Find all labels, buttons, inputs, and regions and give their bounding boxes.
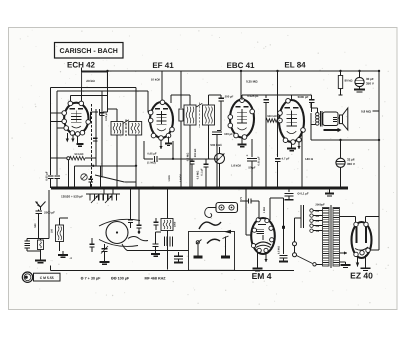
squiggle wire b	[207, 239, 220, 243]
wire EL84 cathode arrow	[298, 141, 300, 149]
svg-text:EBC 41: EBC 41	[226, 61, 255, 70]
node on HT bus	[358, 70, 360, 72]
capacitor 0.05 µF left a	[48, 175, 54, 177]
svg-text:Θ 0,1 µF: Θ 0,1 µF	[297, 192, 309, 196]
IF can core dashed	[125, 120, 127, 138]
dial circle	[106, 222, 128, 244]
wire antenna tank loop	[27, 238, 49, 240]
svg-text:50 kΩ/i: 50 kΩ/i	[75, 153, 84, 156]
svg-text:0.05 µF: 0.05 µF	[46, 171, 49, 181]
wire EBC41 grid drop	[240, 71, 242, 100]
svg-text:1000: 1000	[174, 221, 177, 227]
node on main bus	[116, 187, 119, 190]
resistor 50 kΩ below ECH42	[67, 157, 70, 160]
tube EBC41	[230, 100, 254, 138]
ground below bus right	[329, 188, 331, 193]
speaker	[340, 115, 343, 124]
oscillator box	[74, 166, 76, 188]
ground antenna coil	[40, 251, 42, 260]
electrolytic 100 µF	[212, 131, 222, 133]
node on main bus	[216, 187, 219, 190]
capacitor 200 µF	[220, 95, 222, 98]
svg-text:80 kΩ: 80 kΩ	[345, 79, 354, 83]
wire AVC dashed divider	[91, 104, 93, 188]
svg-text:1 MΩ/i: 1 MΩ/i	[180, 174, 183, 182]
IF transformer T2 primary	[184, 105, 196, 125]
node on main bus	[301, 187, 304, 190]
wire heater tap arrow	[340, 252, 348, 254]
tube EL84	[279, 100, 304, 142]
resistor 20 kΩ box	[82, 72, 108, 88]
electrolytic pair bottom	[174, 255, 183, 257]
resistor 500 kΩ grid EL84	[266, 119, 280, 123]
tuning gang	[86, 193, 120, 195]
wire osc box	[167, 188, 169, 219]
wire T2 secondary top	[208, 95, 210, 105]
antenna tank coil	[38, 240, 44, 250]
svg-text:200 µF: 200 µF	[225, 95, 234, 99]
volume potentiometer 500 kΩ	[215, 154, 225, 164]
trimmer caps pair a	[128, 219, 133, 221]
svg-text:5000 pF: 5000 pF	[298, 95, 309, 99]
EM4 inner details	[258, 224, 266, 226]
capacitor C em4	[240, 200, 248, 202]
svg-text:CARISCH - BACH: CARISCH - BACH	[60, 48, 118, 55]
svg-text:4.7 µF: 4.7 µF	[282, 157, 290, 161]
wire bus drop x107	[107, 71, 109, 112]
node on main bus	[56, 187, 59, 190]
wire EL84 grid	[279, 120, 282, 122]
antenna tank caps	[24, 240, 30, 242]
svg-text:0.01 µF: 0.01 µF	[258, 156, 261, 165]
node on HT bus	[240, 70, 242, 72]
wire 0.025 node down	[265, 121, 267, 189]
svg-text:140 Ω: 140 Ω	[305, 157, 314, 161]
svg-text:350 V: 350 V	[366, 82, 374, 86]
capacitor 0.05 µF right of ECH42	[99, 109, 101, 115]
svg-text:500 kΩ/i: 500 kΩ/i	[267, 115, 278, 118]
svg-text:32 µF: 32 µF	[347, 158, 355, 162]
svg-text:0,05 µF: 0,05 µF	[147, 153, 157, 156]
wire EM4 arrow leg	[265, 253, 267, 263]
IF transformer T1 primary	[111, 122, 123, 136]
speaker frame bar	[324, 129, 338, 131]
wire top HT bus	[82, 70, 380, 72]
node on main bus	[87, 187, 90, 190]
wire ECH42 anode to bus	[81, 68, 83, 73]
wire AVC line upper	[51, 87, 137, 89]
wire EF41 screen drop	[180, 71, 182, 108]
wire ECH42 right pin	[91, 111, 99, 113]
wire left column a	[50, 88, 52, 175]
capacitor 4.7 µF	[277, 71, 279, 157]
node on HT bus	[339, 70, 341, 72]
svg-text:100: 100	[51, 228, 54, 233]
wire EL84 plate	[291, 95, 293, 100]
wire T2 primary top	[189, 95, 191, 105]
svg-text:13/520 + 520 pF: 13/520 + 520 pF	[61, 195, 83, 199]
capacitor 0.05 µF left b	[54, 175, 60, 177]
wire gang drops	[103, 188, 105, 194]
node on main bus	[130, 187, 133, 190]
node on main bus	[265, 187, 268, 190]
svg-text:+: +	[246, 154, 248, 158]
mains switch	[297, 256, 313, 264]
title box CARISCH - BACH	[55, 43, 124, 59]
ECH42 heater arrows	[66, 133, 68, 139]
wire HV to EZ40 plate	[340, 216, 356, 218]
osc coil mid	[56, 225, 64, 242]
wire trafo bottom gnd	[340, 261, 346, 263]
resistor 140 ohm	[301, 131, 303, 188]
wire main bus	[51, 187, 348, 190]
capacitor 0.05 µF coupling	[143, 141, 145, 159]
svg-text:350 V: 350 V	[347, 162, 355, 166]
cap x90	[90, 243, 95, 245]
node on HT bus	[276, 70, 278, 72]
svg-text:EL 84: EL 84	[284, 61, 306, 70]
svg-text:ΘΘ 100 µF: ΘΘ 100 µF	[111, 276, 130, 280]
svg-text:Θ 7 + 30 µF: Θ 7 + 30 µF	[81, 276, 101, 280]
antenna	[40, 207, 42, 210]
small caps mid	[190, 160, 195, 162]
node on HT bus	[378, 70, 380, 72]
power transformer left winding	[323, 208, 330, 267]
node on main bus	[201, 187, 204, 190]
squiggle wire a	[199, 222, 221, 229]
node on main bus	[209, 187, 212, 190]
resistor screen EF41	[179, 109, 183, 121]
svg-text:0.05 µF: 0.05 µF	[105, 112, 108, 121]
wire ECH42 grid pins left	[51, 112, 63, 114]
capacitor 2000 pF antenna	[35, 210, 42, 212]
switch box arrow	[224, 230, 231, 234]
wire right HT vertical	[378, 71, 380, 250]
node on main bus	[276, 187, 279, 190]
switch contact b	[223, 236, 229, 239]
node on main bus	[73, 187, 76, 190]
svg-text:(1 MΩ): (1 MΩ)	[147, 162, 156, 165]
EZ40 inner plates	[356, 227, 358, 243]
wire T1 primary bottom	[116, 135, 118, 188]
svg-text:EM 4: EM 4	[252, 271, 272, 281]
wire T1 primary top	[116, 109, 118, 122]
wire osc coil mid	[59, 242, 61, 252]
logo box	[34, 273, 61, 281]
svg-text:500 kΩ/i: 500 kΩ/i	[210, 143, 221, 147]
wire T1 secondary bottom	[135, 135, 137, 166]
node on main bus	[103, 187, 106, 190]
scan speckle	[11, 30, 394, 306]
switch contact a	[196, 241, 199, 244]
wire EBC41 cathode	[241, 138, 243, 141]
wire IF line	[75, 165, 136, 167]
resistor EM4 right	[283, 198, 285, 254]
svg-text:20 kΩ: 20 kΩ	[86, 79, 95, 83]
electrolytic 30 µF 350V	[359, 71, 361, 78]
osc coil box 1000	[161, 219, 173, 231]
tube EZ40	[352, 222, 372, 258]
svg-text:50 µF: 50 µF	[248, 166, 255, 170]
wire plate EBC41 up	[241, 95, 243, 100]
svg-text:100 µF: 100 µF	[224, 132, 233, 136]
node on main bus	[339, 187, 342, 190]
band switch box	[189, 232, 235, 271]
svg-text:2000pF: 2000pF	[315, 204, 325, 207]
svg-text:500: 500	[34, 223, 37, 228]
node on main bus	[240, 187, 243, 190]
pickup curl wire	[205, 208, 212, 218]
svg-text:0.5 MΩ: 0.5 MΩ	[197, 171, 200, 180]
wire EZ40 legs	[357, 257, 359, 267]
wire OT to speaker	[338, 117, 340, 119]
logo circle	[22, 272, 32, 282]
wire OT primary top	[316, 108, 318, 113]
svg-text:0.5 MΩ: 0.5 MΩ	[278, 246, 281, 254]
node on main bus	[160, 187, 163, 190]
svg-text:C M 5-55: C M 5-55	[40, 276, 54, 280]
capacitor 5000 pF	[309, 99, 315, 101]
node on main bus	[189, 187, 192, 190]
wire mains lower	[51, 269, 294, 271]
wire EF41 cathode arrow	[160, 140, 162, 150]
svg-text:0.25 MΩ: 0.25 MΩ	[246, 80, 258, 84]
cap left of osc box	[154, 221, 159, 223]
EF41 cathode ground	[168, 137, 170, 143]
wire bottom row right	[311, 139, 379, 141]
IF transformer T2 secondary	[203, 105, 215, 125]
ECH42 cathode ground	[77, 136, 79, 144]
mains plug contacts	[293, 242, 297, 246]
resistor 80 kΩ	[340, 71, 342, 75]
padder trimmer	[102, 248, 108, 250]
wire T2 bottoms	[189, 125, 191, 188]
tube ECH42	[64, 103, 88, 135]
output transformer coil	[316, 113, 319, 116]
output transformer core	[320, 111, 322, 127]
capacitor 0.025 µF	[265, 95, 267, 98]
ground EBC41 cathode	[241, 141, 243, 145]
svg-text:500 kΩ: 500 kΩ	[194, 149, 197, 158]
wire ECH42 screen	[95, 109, 97, 166]
output transformer can	[323, 112, 338, 126]
node on main bus	[324, 187, 327, 190]
svg-text:30 µF: 30 µF	[366, 77, 374, 81]
wire OT primary bottom	[310, 113, 312, 125]
trimmer caps pair b	[137, 224, 142, 226]
tube EM4	[251, 218, 275, 254]
tube EF41	[150, 102, 173, 138]
svg-text:0.8 MΩ: 0.8 MΩ	[361, 110, 372, 114]
node on main bus	[180, 187, 183, 190]
electrolytic 32 µF	[340, 140, 342, 158]
wire EM4 ground leg	[256, 252, 258, 265]
node on main bus	[251, 187, 254, 190]
IF transformer T1 secondary	[129, 122, 142, 136]
node on HT bus	[106, 70, 108, 72]
wire T1 secondary top	[135, 91, 137, 122]
svg-text:1.8 kΩ/i: 1.8 kΩ/i	[231, 164, 241, 168]
svg-text:MF 468 KHZ: MF 468 KHZ	[144, 276, 166, 280]
ground padder	[104, 258, 106, 262]
IF can2 core dashed	[198, 103, 200, 129]
svg-text:0.5 MΩ: 0.5 MΩ	[187, 153, 190, 162]
power transformer core	[329, 205, 331, 268]
wire left column b	[56, 91, 58, 175]
node on main bus	[139, 187, 142, 190]
mains cord	[300, 205, 302, 228]
svg-text:10 kΩ/i: 10 kΩ/i	[151, 78, 160, 82]
wire dial to switch	[122, 244, 128, 251]
wire EL84 cathode gnd	[291, 143, 293, 145]
transformer primary taps	[310, 209, 313, 212]
svg-text:1 MΩ: 1 MΩ	[168, 175, 171, 181]
osc trimmer	[81, 174, 87, 180]
pickup jack	[216, 203, 238, 213]
svg-text:2000 pF: 2000 pF	[44, 211, 55, 215]
wire ECH42 top header	[70, 94, 107, 96]
svg-text:EF 41: EF 41	[152, 61, 174, 70]
wire EF41 anode to bus	[161, 71, 163, 102]
padding stack	[155, 232, 157, 244]
power transformer right winding	[333, 208, 340, 267]
node bottom right	[339, 139, 341, 141]
wire AVC line lower	[57, 90, 148, 92]
svg-text:EZ 40: EZ 40	[350, 271, 373, 281]
capacitor screen bypass	[101, 91, 103, 113]
wire line2 diag	[95, 175, 124, 182]
ground osc mid	[62, 251, 64, 255]
osc bottom caps	[164, 237, 166, 247]
svg-text:1 MΩ: 1 MΩ	[263, 207, 266, 213]
wire EM4 top drops	[258, 204, 260, 220]
electrolytic 50 µF	[251, 139, 253, 157]
wire right bus to EZ40	[369, 249, 379, 251]
capacitor 0.01 µF below bus	[288, 188, 290, 192]
svg-text:0.1 µF: 0.1 µF	[201, 168, 204, 176]
